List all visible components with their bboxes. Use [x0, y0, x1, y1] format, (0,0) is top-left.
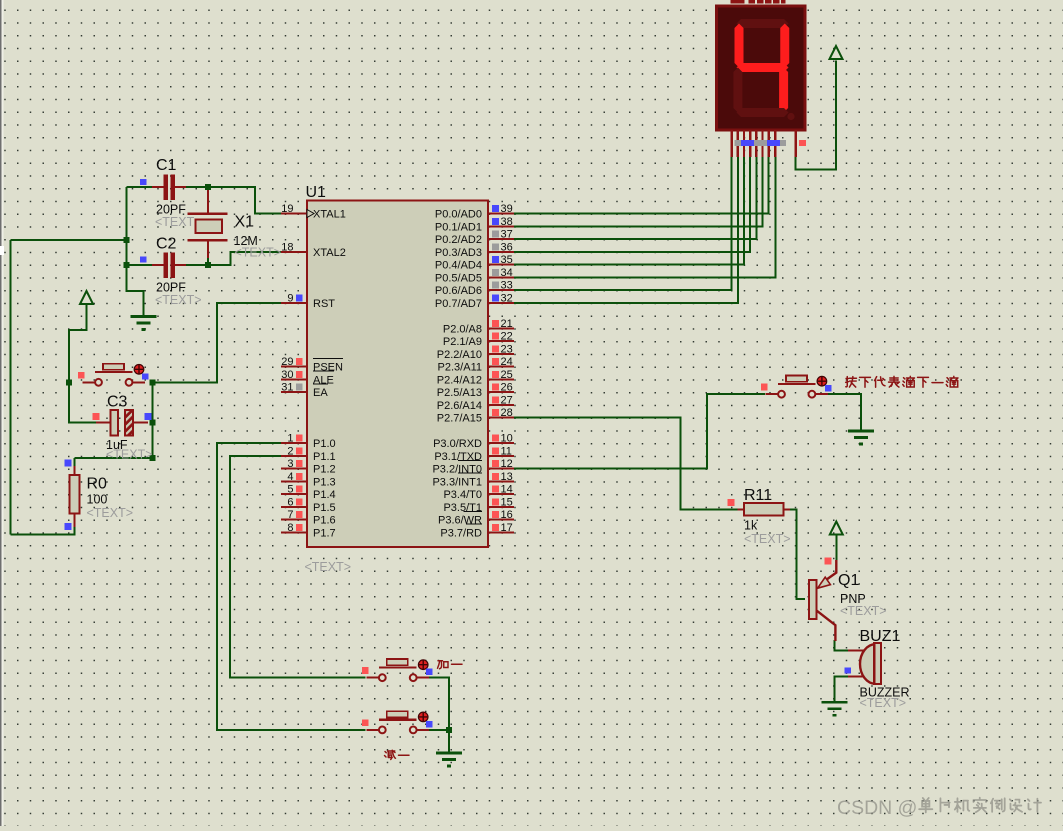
- svg-text:8: 8: [287, 522, 293, 534]
- ground buttons: [436, 753, 462, 766]
- pin 15 logic indicator: [492, 498, 499, 505]
- pin 19 stub: [281, 213, 307, 215]
- op-amp U1 body (80C51 MCU): [307, 201, 488, 548]
- pin 31 stub: [281, 391, 307, 393]
- wire display segment pin 5 to P0 bus: [514, 157, 756, 239]
- display segment a (off): [737, 19, 789, 28]
- wire display segment pin 3 to P0 bus: [514, 157, 744, 265]
- svg-text:16: 16: [501, 509, 513, 521]
- power +5V arrow RST network: [80, 291, 93, 304]
- label "按下代表滴下一滴" (press to drip one drop): [846, 376, 958, 387]
- wire display segment pin 2 to P0 bus: [514, 157, 738, 303]
- svg-text:<TEXT>: <TEXT>: [744, 532, 791, 546]
- wire P1.1 pin2 to plus button: [230, 456, 366, 678]
- wire power to Q1 emitter: [835, 535, 837, 561]
- logic indicator blue (SW-minus): [426, 721, 432, 727]
- svg-text:P1.2: P1.2: [313, 464, 336, 476]
- svg-text:33: 33: [501, 280, 513, 292]
- power +5V arrow display common: [830, 46, 843, 59]
- wire C2 row: [127, 264, 153, 266]
- pin 21 stub: [488, 327, 514, 329]
- svg-text:BUZ1: BUZ1: [860, 628, 901, 645]
- pin 36 stub: [488, 251, 514, 253]
- display pins: [732, 130, 796, 157]
- svg-text:P2.6/A14: P2.6/A14: [437, 400, 482, 412]
- pin 6 logic indicator: [296, 498, 303, 505]
- svg-text:100: 100: [87, 493, 108, 507]
- pin 23 stub: [488, 353, 514, 355]
- pin 7 stub: [281, 519, 307, 521]
- pin 34 stub: [488, 276, 514, 278]
- pin 30 logic indicator: [296, 371, 303, 378]
- wire crystal bottom pin: [207, 240, 209, 265]
- wire left loop horizontal: [10, 239, 126, 241]
- logic indicator blue (R0 top): [65, 460, 72, 467]
- display segment c (on): [779, 68, 788, 113]
- wire C1 left to vertical: [127, 186, 153, 188]
- pin 18 stub: [281, 251, 307, 253]
- pin 11 logic indicator: [492, 447, 499, 454]
- svg-text:27: 27: [501, 394, 513, 406]
- pin 12 stub: [488, 468, 514, 470]
- svg-text:P2.3/A11: P2.3/A11: [438, 362, 482, 374]
- pin 38 stub: [488, 225, 514, 227]
- pin 35 logic indicator: [492, 256, 499, 263]
- svg-text:32: 32: [501, 292, 513, 304]
- capacitor C1: [152, 174, 186, 200]
- svg-text:P0.3/AD3: P0.3/AD3: [435, 247, 482, 259]
- logic indicator red (R11): [728, 499, 735, 506]
- svg-text:26: 26: [501, 382, 513, 394]
- svg-text:4: 4: [287, 471, 293, 483]
- buzzer BUZ1: [848, 643, 881, 684]
- wire left loop bottom to R0: [10, 521, 74, 534]
- svg-text:P1.5: P1.5: [313, 502, 336, 514]
- pin 21 logic indicator: [492, 320, 499, 327]
- svg-text:PSEN: PSEN: [313, 362, 343, 374]
- svg-text:P0.2/AD2: P0.2/AD2: [435, 234, 482, 246]
- wire R11 right to Q1 base: [790, 509, 805, 599]
- resistor R0: [69, 466, 79, 527]
- svg-text:39: 39: [501, 203, 513, 215]
- svg-text:<TEXT>: <TEXT>: [106, 448, 153, 462]
- logic indicator red (SW-RST): [78, 372, 85, 379]
- logic indicator red (C3): [93, 413, 100, 420]
- ground buzzer: [821, 702, 847, 715]
- push button SW-RST: [83, 364, 146, 386]
- pin 6 stub: [281, 506, 307, 508]
- pin 29 stub: [281, 366, 307, 368]
- pin 24 logic indicator: [492, 358, 499, 365]
- logic indicator blue (C3): [145, 413, 152, 420]
- svg-text:35: 35: [501, 254, 513, 266]
- svg-text:37: 37: [501, 229, 513, 241]
- svg-text:25: 25: [501, 369, 513, 381]
- logic indicator blue (SW-drop): [825, 385, 831, 391]
- svg-text:P0.7/AD7: P0.7/AD7: [435, 298, 482, 310]
- pin 16 stub: [488, 519, 514, 521]
- wire display common anode to power: [796, 61, 836, 170]
- svg-text:30: 30: [281, 369, 293, 381]
- svg-text:P2.1/A9: P2.1/A9: [443, 336, 482, 348]
- svg-text:P3.2/INT0: P3.2/INT0: [432, 464, 482, 476]
- pin 16 logic indicator: [492, 511, 499, 518]
- svg-text:P1.3: P1.3: [313, 476, 336, 488]
- pin 35 stub: [488, 264, 514, 266]
- junction node XT1: [205, 184, 211, 190]
- wire C3 right vertical: [152, 382, 154, 458]
- logic indicator blue (C2): [140, 256, 146, 262]
- svg-text:R0: R0: [87, 476, 108, 493]
- wire C1 right to node XT1: [186, 186, 208, 188]
- pin 17 stub: [488, 531, 514, 533]
- svg-text:6: 6: [287, 496, 293, 508]
- pin 13 stub: [488, 480, 514, 482]
- wire node XT1 to XTAL1 pin 19: [208, 187, 281, 214]
- svg-text:1k: 1k: [744, 519, 758, 533]
- pin 11 stub: [488, 455, 514, 457]
- wire left loop vertical: [9, 240, 11, 534]
- pin 38 logic indicator: [492, 218, 499, 225]
- svg-text:P3.0/RXD: P3.0/RXD: [433, 438, 482, 450]
- junction buttons ground node: [446, 727, 452, 733]
- pin 39 stub: [488, 213, 514, 215]
- svg-text:<TEXT>: <TEXT>: [840, 604, 887, 618]
- pin 2 stub: [281, 455, 307, 457]
- svg-text:P0.6/AD6: P0.6/AD6: [435, 285, 482, 297]
- junction R0 top: [150, 455, 156, 461]
- wire minus button right to ground: [429, 730, 449, 753]
- pin 25 logic indicator: [492, 371, 499, 378]
- display segment e (off): [733, 68, 742, 113]
- pin 12 logic indicator: [492, 460, 499, 467]
- logic indicator red (Q1 emitter): [825, 558, 832, 565]
- wire Q1 collector to buzzer: [834, 640, 848, 651]
- logic indicator red (SW-plus): [362, 667, 369, 674]
- pin 37 logic indicator: [492, 231, 499, 238]
- pin 32 logic indicator: [492, 294, 499, 301]
- wire vertical C1-C2 left: [126, 187, 128, 265]
- wire display segment pin 4 to P0 bus: [514, 157, 750, 252]
- wire power to RST button: [69, 305, 87, 383]
- svg-text:R11: R11: [744, 487, 772, 504]
- svg-text:EA: EA: [313, 387, 328, 399]
- resistor R11: [738, 503, 791, 516]
- pin 2 logic indicator: [296, 447, 303, 454]
- pin 4 stub: [281, 480, 307, 482]
- svg-text:<TEXT>: <TEXT>: [235, 246, 282, 260]
- svg-text:15: 15: [501, 496, 513, 508]
- logic indicator red (SW-minus): [362, 719, 369, 726]
- pin 27 stub: [488, 404, 514, 406]
- svg-text:P0.1/AD1: P0.1/AD1: [435, 221, 482, 233]
- capacitor C2: [152, 252, 186, 277]
- pin 9 logic indicator: [296, 294, 303, 301]
- svg-text:XTAL1: XTAL1: [313, 209, 346, 221]
- push button SW-plus: [366, 659, 429, 681]
- svg-text:ALE: ALE: [313, 374, 334, 386]
- svg-text:XTAL2: XTAL2: [313, 247, 346, 259]
- svg-text:14: 14: [501, 484, 513, 496]
- svg-text:P2.4/A12: P2.4/A12: [437, 374, 482, 386]
- svg-text:P2.0/A8: P2.0/A8: [443, 323, 482, 335]
- pin 9 stub: [281, 302, 307, 304]
- pin 8 logic indicator: [296, 524, 303, 531]
- wire P3.2 pin12 to drop button: [514, 394, 765, 468]
- svg-text:P1.4: P1.4: [313, 489, 336, 501]
- pin 39 logic indicator: [492, 205, 499, 212]
- svg-text:28: 28: [501, 407, 513, 419]
- watermark chinese text: [919, 798, 1041, 813]
- svg-text:12: 12: [501, 458, 513, 470]
- pin 10 stub: [488, 442, 514, 444]
- display segment g (on): [737, 63, 789, 72]
- svg-text:C1: C1: [156, 157, 177, 174]
- svg-text:36: 36: [501, 241, 513, 253]
- svg-text:<TEXT>: <TEXT>: [305, 560, 352, 574]
- wire R0 top stub: [74, 458, 76, 466]
- logic indicator blue (C1): [140, 179, 146, 185]
- transistor Q1 (PNP): [809, 560, 836, 641]
- svg-text:38: 38: [501, 216, 513, 228]
- wire node XT2 to XTAL2 pin 18: [208, 252, 281, 265]
- svg-text:P1.7: P1.7: [313, 527, 336, 539]
- pin 26 logic indicator: [492, 384, 499, 391]
- svg-text:34: 34: [501, 267, 513, 279]
- pin 22 logic indicator: [492, 333, 499, 340]
- pin 29 logic indicator: [296, 358, 303, 365]
- svg-text:P2.2/A10: P2.2/A10: [437, 349, 482, 361]
- label "加一" (jia yi (plus one)): [438, 661, 463, 669]
- ground crystal net: [131, 317, 157, 330]
- pin 27 logic indicator: [492, 396, 499, 403]
- svg-text:C3: C3: [107, 394, 128, 411]
- svg-text:P3.7/RD: P3.7/RD: [440, 527, 482, 539]
- svg-text:24: 24: [501, 356, 513, 368]
- pin 3 stub: [281, 468, 307, 470]
- 7-segment display body: [717, 6, 806, 130]
- svg-text:P3.5/T1: P3.5/T1: [443, 502, 482, 514]
- pin 14 stub: [488, 493, 514, 495]
- label "减一" (jian yi (minus one)): [385, 750, 410, 759]
- svg-text:11: 11: [501, 445, 512, 457]
- pin 28 logic indicator: [492, 409, 499, 416]
- svg-text:P3.6/WR: P3.6/WR: [438, 515, 482, 527]
- logic indicator blue (SW-plus): [426, 669, 432, 675]
- pin 4 logic indicator: [296, 473, 303, 480]
- pin 30 stub: [281, 378, 307, 380]
- svg-text:P2.7/A15: P2.7/A15: [437, 413, 482, 425]
- ground drop button: [848, 431, 874, 444]
- svg-text:<TEXT>: <TEXT>: [860, 696, 907, 710]
- pin 33 logic indicator: [492, 282, 499, 289]
- svg-text:2: 2: [287, 445, 293, 457]
- svg-text:18: 18: [281, 241, 293, 253]
- svg-text:1: 1: [287, 433, 293, 445]
- svg-text:P2.5/A13: P2.5/A13: [437, 387, 482, 399]
- pin 8 stub: [281, 531, 307, 533]
- display pin logic indicators strip: [735, 140, 787, 146]
- pin 23 logic indicator: [492, 345, 499, 352]
- display segment f (on): [735, 24, 744, 68]
- svg-text:X1: X1: [235, 214, 255, 231]
- display common pin logic indicator red: [799, 140, 806, 146]
- pin 22 stub: [488, 340, 514, 342]
- junction RST button right: [150, 379, 156, 385]
- svg-text:P1.6: P1.6: [313, 515, 336, 527]
- watermark CSDN: [837, 797, 917, 819]
- svg-text:P1.0: P1.0: [313, 438, 336, 450]
- svg-text:17: 17: [501, 522, 513, 534]
- pin 1 logic indicator: [296, 435, 303, 442]
- wire button SW-RST right to RST pin 9: [153, 303, 282, 383]
- pin 5 logic indicator: [296, 486, 303, 493]
- wire crystal top pin: [207, 187, 209, 214]
- wire P1.0 pin1 to minus button: [217, 443, 366, 730]
- logic indicator red (SW-drop): [761, 384, 768, 391]
- wire plus button right down: [429, 678, 449, 730]
- wire display segment pin 7 to P0 bus: [514, 157, 769, 214]
- wire P2.7 pin28 to R11: [514, 418, 738, 510]
- svg-text:CSDN @: CSDN @: [837, 797, 917, 819]
- pin 24 stub: [488, 366, 514, 368]
- wire R0 top horizontal: [75, 457, 153, 459]
- svg-text:Q1: Q1: [838, 572, 859, 589]
- display clipped label text at top: [731, 0, 786, 3]
- push button SW-minus: [366, 711, 429, 733]
- wire button SW-RST left down to C3: [69, 382, 96, 422]
- pin 15 stub: [488, 506, 514, 508]
- svg-text:29: 29: [281, 356, 293, 368]
- logic indicator blue (R0 bottom): [65, 523, 72, 530]
- wire C2 to ground: [127, 265, 144, 317]
- pin 17 logic indicator: [492, 524, 499, 531]
- svg-text:3: 3: [287, 458, 293, 470]
- svg-text:22: 22: [501, 331, 513, 343]
- svg-text:P0.4/AD4: P0.4/AD4: [435, 260, 482, 272]
- pin 31 logic indicator: [296, 384, 303, 391]
- display segment b (on): [780, 24, 789, 68]
- pin 28 stub: [488, 417, 514, 419]
- pin 26 stub: [488, 391, 514, 393]
- svg-text:P0.0/AD0: P0.0/AD0: [435, 209, 482, 221]
- junction node XT2: [205, 262, 211, 268]
- pin 3 logic indicator: [296, 460, 303, 467]
- svg-text:5: 5: [287, 484, 293, 496]
- svg-text:P3.1/TXD: P3.1/TXD: [434, 451, 482, 463]
- pin 33 stub: [488, 289, 514, 291]
- crystal X1: [187, 214, 227, 241]
- svg-text:<TEXT>: <TEXT>: [155, 293, 202, 307]
- svg-text:U1: U1: [306, 184, 327, 201]
- svg-text:21: 21: [501, 318, 513, 330]
- svg-text:C2: C2: [156, 236, 177, 253]
- display segment d (off): [737, 108, 789, 117]
- svg-text:P3.3/INT1: P3.3/INT1: [432, 476, 482, 488]
- logic indicator blue (BUZ1): [845, 667, 851, 673]
- svg-text:23: 23: [501, 343, 513, 355]
- junction C3 right: [150, 419, 156, 425]
- svg-text:P3.4/T0: P3.4/T0: [443, 489, 482, 501]
- pin 32 stub: [488, 302, 514, 304]
- wire display segment pin 1 to P0 bus: [514, 157, 732, 290]
- pin 37 stub: [488, 238, 514, 240]
- pin 34 logic indicator: [492, 269, 499, 276]
- svg-text:9: 9: [287, 292, 293, 304]
- pin 13 logic indicator: [492, 473, 499, 480]
- pin 7 logic indicator: [296, 511, 303, 518]
- junction C2 left: [124, 262, 130, 268]
- pin 10 logic indicator: [492, 435, 499, 442]
- svg-text:7: 7: [287, 509, 293, 521]
- junction C1-C2 left: [124, 237, 130, 243]
- display decimal point (off): [787, 113, 794, 120]
- power +5V arrow Q1 emitter: [830, 522, 843, 535]
- editor window left edge: [0, 0, 2, 826]
- wire buzzer bottom to ground: [834, 677, 848, 703]
- pin 14 logic indicator: [492, 486, 499, 493]
- capacitor C3 (1uF electrolytic): [96, 410, 148, 436]
- pin 25 stub: [488, 378, 514, 380]
- pin 36 logic indicator: [492, 243, 499, 250]
- wire drop button right to ground: [828, 394, 861, 431]
- wire display segment pin 8 to P0 bus: [514, 157, 775, 277]
- svg-text:19: 19: [281, 203, 293, 215]
- junction RST button left: [66, 379, 72, 385]
- push button SW-drop: [766, 376, 828, 398]
- svg-text:RST: RST: [313, 298, 335, 310]
- svg-text:<TEXT>: <TEXT>: [87, 506, 134, 520]
- svg-text:10: 10: [501, 433, 513, 445]
- pin 5 stub: [281, 493, 307, 495]
- pin 1 stub: [281, 442, 307, 444]
- logic indicator blue (SW-RST): [142, 373, 148, 379]
- svg-text:P1.1: P1.1: [313, 451, 336, 463]
- svg-text:31: 31: [281, 382, 293, 394]
- wire display segment pin 6 to P0 bus: [514, 157, 762, 226]
- svg-text:P0.5/AD5: P0.5/AD5: [435, 272, 482, 284]
- svg-text:13: 13: [501, 471, 513, 483]
